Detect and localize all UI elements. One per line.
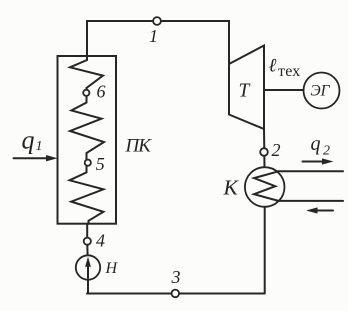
svg-text:2: 2 (272, 140, 281, 160)
svg-text:4: 4 (96, 231, 105, 251)
node 3 (171, 267, 181, 297)
svg-text:Т: Т (239, 81, 251, 102)
wire: turbine outlet to condenser (263, 129, 266, 168)
wire: pump to bottom wire (87, 280, 89, 294)
svg-text:ПК: ПК (125, 136, 153, 157)
svg-text:q: q (22, 126, 35, 155)
svg-text:ЭГ: ЭГ (311, 83, 331, 100)
node 4 (84, 231, 105, 251)
condenser coil (254, 171, 279, 201)
node 2 (260, 140, 280, 160)
cooling water inlet pipe (277, 200, 343, 202)
svg-text:Н: Н (105, 260, 119, 277)
arrow q1 in (14, 155, 58, 161)
svg-text:q: q (311, 133, 321, 155)
svg-text:1: 1 (149, 26, 158, 46)
boiler coil (70, 56, 104, 224)
svg-text:5: 5 (96, 154, 105, 174)
wire: boiler to node 4 (86, 224, 88, 238)
turbine T (229, 46, 264, 130)
condenser K circle (223, 167, 285, 207)
wire: condenser to bottom (264, 207, 266, 294)
shaft turbine to generator (264, 89, 304, 91)
cooling water outlet pipe (277, 170, 343, 172)
svg-text:1: 1 (36, 139, 43, 154)
pump H (76, 255, 119, 279)
svg-text:6: 6 (97, 82, 106, 102)
label l_tex (269, 56, 301, 80)
wire: boiler top to turbine inlet (87, 21, 229, 64)
label q2 (311, 133, 331, 159)
arrow q2 out (303, 158, 334, 164)
svg-text:3: 3 (171, 267, 181, 287)
svg-text:ℓ: ℓ (269, 56, 277, 77)
arrow cooling water in (306, 207, 333, 213)
generator EG (304, 73, 340, 109)
node 6 (83, 82, 105, 102)
node 1 (149, 17, 161, 46)
svg-text:К: К (223, 176, 240, 200)
wire: node 4 to pump (86, 245, 88, 256)
svg-text:2: 2 (323, 144, 330, 159)
svg-text:тех: тех (278, 63, 300, 80)
wire: bottom (pump to condenser leg) (87, 293, 265, 295)
node 5 (85, 154, 105, 174)
boiler PK box (58, 56, 153, 224)
label q1 (22, 126, 43, 155)
